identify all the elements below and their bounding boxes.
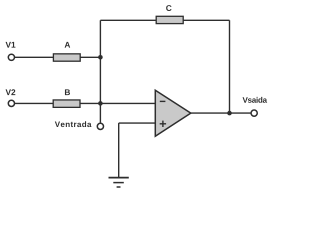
wire V2 terminal to resistor B (15, 102, 54, 104)
label Ventrada (55, 121, 92, 127)
node summing junction V1 (98, 55, 103, 60)
resistor C (156, 16, 183, 23)
terminal Ventrada (97, 123, 103, 129)
wire op-amp output (191, 112, 251, 114)
label C (166, 5, 171, 11)
ground (109, 178, 129, 187)
wire summing node vertical (99, 20, 101, 122)
resistor B (53, 100, 80, 107)
label Vsaida (243, 97, 268, 103)
resistor A (53, 54, 80, 61)
label V1 (6, 42, 16, 48)
label V2 (6, 89, 16, 95)
node output junction (227, 111, 232, 116)
wire V1 terminal to resistor A (15, 56, 54, 58)
wire feedback right vertical (229, 20, 231, 113)
wire resistor B to op-amp inverting input (80, 102, 156, 104)
label A (65, 42, 71, 48)
op-amp U1 (155, 90, 191, 136)
terminal V1 (8, 54, 14, 60)
op-amp minus sign (160, 100, 166, 102)
wire op-amp noninverting input (119, 122, 156, 124)
wire to ground (118, 123, 120, 177)
label B (65, 89, 70, 95)
terminal V2 (8, 100, 14, 106)
wire feedback top right (183, 19, 229, 21)
wire resistor A to summing node (80, 56, 100, 58)
node summing junction V2 (98, 101, 103, 106)
op-amp plus sign (160, 123, 166, 125)
wire feedback top left (100, 19, 156, 21)
terminal Vsaida (251, 110, 257, 116)
